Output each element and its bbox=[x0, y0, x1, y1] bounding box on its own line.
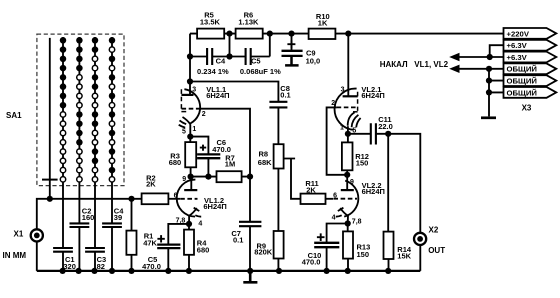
node C11/R14 bbox=[385, 131, 391, 137]
resistor R4 680 bbox=[184, 224, 209, 271]
capacitor C8 0.1 bbox=[269, 84, 290, 107]
tube VL2.1 6N24P bbox=[331, 85, 385, 134]
svg-text:4: 4 bbox=[198, 220, 202, 227]
svg-text:6Н24П: 6Н24П bbox=[361, 91, 384, 100]
svg-text:2K: 2K bbox=[146, 179, 156, 188]
junction dots on ground bus bbox=[60, 268, 392, 274]
svg-text:160: 160 bbox=[82, 213, 95, 222]
node common 3 bbox=[486, 89, 492, 95]
resistor R8 68K bbox=[258, 144, 284, 168]
wire left supply riser to VL1.1 anode bbox=[189, 34, 191, 95]
svg-text:6Н24П: 6Н24П bbox=[362, 187, 385, 196]
resistor R11 2K bbox=[301, 179, 326, 204]
svg-text:5: 5 bbox=[182, 128, 186, 135]
svg-text:6Н24П: 6Н24П bbox=[203, 202, 226, 211]
heater feed arrow 2 bbox=[449, 65, 459, 73]
svg-text:0.1: 0.1 bbox=[233, 235, 243, 244]
svg-text:82: 82 bbox=[97, 262, 105, 271]
svg-text:6: 6 bbox=[174, 193, 178, 200]
wire R7 row bbox=[191, 176, 250, 178]
svg-text:47K: 47K bbox=[143, 238, 157, 247]
svg-text:X2: X2 bbox=[429, 225, 439, 234]
switch SA1 column 3 contacts bbox=[92, 37, 99, 182]
svg-text:+220V: +220V bbox=[507, 29, 530, 38]
node VL1.2 cathode bbox=[186, 221, 192, 227]
svg-text:9: 9 bbox=[182, 176, 186, 183]
svg-text:470.0: 470.0 bbox=[302, 258, 321, 267]
svg-text:+6.3V: +6.3V bbox=[507, 53, 528, 62]
node riser/C8 branch bbox=[187, 78, 193, 84]
node VL2.1 cathode bbox=[345, 131, 351, 137]
svg-text:15K: 15K bbox=[397, 251, 411, 260]
resistor R10 1K bbox=[309, 12, 336, 39]
svg-text:150: 150 bbox=[356, 159, 369, 168]
node R1 top bbox=[128, 196, 134, 202]
svg-text:2K: 2K bbox=[306, 185, 316, 194]
wire R9 to bus bbox=[277, 259, 279, 271]
capacitor C9 10,0 bbox=[282, 34, 321, 66]
node VL1.1 cathode bbox=[187, 134, 193, 140]
node rail R6-right bbox=[267, 30, 273, 36]
switch SA1 column 4 contacts bbox=[109, 37, 116, 182]
switch SA1 column 3 wire bbox=[94, 37, 96, 182]
switch SA1 column 4 wire bbox=[111, 37, 113, 182]
ground below C9 bbox=[285, 57, 299, 66]
wire +6.3V pair link bbox=[459, 45, 504, 57]
capacitor C6 470.0 bbox=[190, 137, 231, 177]
svg-text:22.0: 22.0 bbox=[378, 122, 393, 131]
node R3 bottom / VL1.2 anode bbox=[188, 174, 194, 180]
svg-text:1M: 1M bbox=[225, 160, 235, 169]
svg-text:X3: X3 bbox=[522, 103, 532, 112]
node C6 bottom bbox=[205, 174, 211, 180]
wire +220V top rail bbox=[190, 33, 504, 35]
svg-text:1: 1 bbox=[340, 125, 344, 132]
capacitor C3 82 bbox=[85, 182, 105, 271]
svg-text:13.5K: 13.5K bbox=[200, 18, 221, 27]
capacitor C4 39 bbox=[102, 182, 122, 271]
wire C11 node to X2 bbox=[388, 134, 420, 233]
svg-text:470.0: 470.0 bbox=[142, 262, 161, 271]
switch SA1 column 1 wire bbox=[62, 37, 64, 182]
node R7 right bbox=[247, 174, 253, 180]
connector X2 bbox=[414, 225, 445, 255]
capacitor C11 22.0 bbox=[348, 115, 393, 144]
svg-text:НАКАЛ VL1, VL2: НАКАЛ VL1, VL2 bbox=[380, 60, 449, 69]
svg-text:4: 4 bbox=[332, 214, 336, 221]
tube VL1.1 6N24P bbox=[179, 85, 230, 136]
svg-text:X1: X1 bbox=[14, 229, 24, 238]
wire X1 bottom lead to ground bus bbox=[36, 242, 38, 271]
capacitor C10 470.0 bbox=[302, 224, 348, 271]
svg-text:1: 1 bbox=[192, 126, 196, 133]
resistor R3 680 bbox=[169, 137, 197, 177]
node rail C9 bbox=[288, 30, 294, 36]
switch SA1 column 2 contacts bbox=[76, 37, 83, 182]
svg-text:3: 3 bbox=[192, 86, 196, 93]
wire X2 bottom to bus bbox=[419, 245, 421, 271]
svg-text:39: 39 bbox=[114, 213, 122, 222]
node rail R5-R6 bbox=[226, 30, 232, 36]
capacitor C2 160 bbox=[70, 182, 90, 271]
switch SA1 column 2 wire bbox=[78, 37, 80, 182]
wire rail to VL2.1 anode bbox=[347, 34, 349, 97]
switch SA1 common wire bbox=[49, 38, 51, 199]
wire common link bbox=[459, 69, 504, 117]
switch SA1 contact columns bbox=[60, 37, 116, 182]
svg-text:3: 3 bbox=[341, 86, 345, 93]
svg-text:ОБЩИЙ: ОБЩИЙ bbox=[507, 65, 538, 74]
node C4-C5 bbox=[226, 53, 232, 59]
capacitor C5 0.068uF 1% bbox=[240, 48, 281, 76]
svg-text:2: 2 bbox=[202, 111, 206, 118]
resistor R2 2K bbox=[142, 174, 169, 205]
wire R11 to VL2.2 grid bbox=[326, 198, 334, 200]
capacitor C7 0.1 bbox=[231, 177, 261, 271]
resistor R12 150 bbox=[342, 134, 369, 175]
wire R8 side tap to R11 bbox=[284, 159, 301, 199]
node common 2 bbox=[486, 78, 492, 84]
svg-text:0.234 1%: 0.234 1% bbox=[197, 67, 229, 76]
switch SA1 dashed enclosure bbox=[37, 34, 124, 186]
svg-text:2: 2 bbox=[331, 100, 335, 107]
wire C8 to R8 bbox=[277, 107, 279, 144]
capacitor C4 0.234 1% bbox=[197, 48, 229, 76]
tube VL1.2 6N24P bbox=[174, 176, 227, 227]
node common 1 bbox=[486, 66, 492, 72]
tube VL2.2 6N24P bbox=[332, 175, 385, 226]
capacitor C1 320 bbox=[53, 182, 73, 271]
svg-text:IN MM: IN MM bbox=[3, 251, 27, 260]
resistor R7 1M bbox=[217, 154, 242, 183]
wire R2 to VL1.2 grid bbox=[168, 198, 180, 200]
svg-text:SA1: SA1 bbox=[6, 111, 22, 120]
ground symbol at C7 column bbox=[243, 271, 257, 282]
resistor R1 47K bbox=[126, 199, 157, 271]
node SA1 common / signal row bbox=[47, 196, 53, 202]
node SRPP (R12 bottom / VL2.2 anode) bbox=[344, 172, 350, 178]
wire R8 to R9 bbox=[277, 169, 279, 232]
wire VL2.1 grid (pin 2) down to SRPP node bbox=[327, 107, 348, 174]
svg-text:6Н24П: 6Н24П bbox=[206, 91, 229, 100]
capacitor C5 470.0 (cathode bypass) bbox=[142, 224, 189, 271]
switch SA1 wiper bar bbox=[42, 179, 58, 181]
svg-text:68K: 68K bbox=[258, 158, 272, 167]
switch SA1 column 1 contacts bbox=[60, 37, 67, 182]
svg-text:1.13K: 1.13K bbox=[238, 18, 259, 27]
svg-text:10,0: 10,0 bbox=[306, 56, 321, 65]
connector X1 bbox=[3, 229, 43, 260]
svg-text:150: 150 bbox=[357, 250, 370, 259]
svg-text:ОБЩИЙ: ОБЩИЙ bbox=[507, 77, 538, 86]
wire ground bus bbox=[37, 270, 421, 272]
svg-text:0.1: 0.1 bbox=[280, 90, 290, 99]
svg-text:C4: C4 bbox=[216, 57, 226, 66]
node VL2.2 cathode bbox=[345, 220, 351, 226]
wire VL1.1 anode branch to C8 bbox=[190, 82, 278, 102]
ground below X3 bbox=[481, 116, 496, 119]
svg-text:680: 680 bbox=[197, 245, 210, 254]
connector X3 bbox=[504, 28, 557, 112]
wire C4/C5 row bbox=[190, 34, 270, 57]
svg-text:1K: 1K bbox=[318, 19, 328, 28]
svg-text:6: 6 bbox=[333, 193, 337, 200]
node rail VL2.1 bbox=[345, 30, 351, 36]
svg-text:680: 680 bbox=[169, 158, 182, 167]
svg-text:320: 320 bbox=[63, 262, 76, 271]
heater feed arrow 1 bbox=[449, 53, 459, 61]
svg-text:9: 9 bbox=[350, 179, 354, 186]
svg-text:820K: 820K bbox=[254, 247, 273, 256]
svg-text:+6.3V: +6.3V bbox=[507, 41, 528, 50]
resistor R13 150 bbox=[343, 224, 370, 271]
resistor R14 15K bbox=[384, 134, 412, 271]
svg-text:OUT: OUT bbox=[428, 246, 445, 255]
svg-text:ОБЩИЙ: ОБЩИЙ bbox=[507, 88, 538, 97]
resistor R9 820K bbox=[254, 231, 283, 259]
node +6.3V bbox=[487, 54, 493, 60]
resistor R6 1.13K bbox=[236, 11, 263, 39]
node riser/C4 row bbox=[187, 53, 193, 59]
svg-text:0.068uF 1%: 0.068uF 1% bbox=[240, 67, 281, 76]
wire VL1.1 grid (pin 2) to R7/C7 column bbox=[200, 109, 250, 177]
wire X1 top lead to signal row bbox=[37, 199, 142, 229]
svg-text:7,8: 7,8 bbox=[352, 218, 362, 225]
svg-text:C5: C5 bbox=[251, 57, 261, 66]
resistor R5 13.5K bbox=[197, 11, 224, 39]
